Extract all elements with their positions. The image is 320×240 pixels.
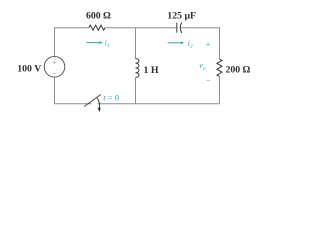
wire: left vertical upper segment (top corner down to source): [54, 28, 56, 57]
wire: middle branch upper segment: [135, 28, 137, 59]
inductor L 1 H (coil): [136, 59, 139, 78]
svg-text:100 V: 100 V: [17, 63, 41, 74]
svg-text:+: +: [206, 39, 211, 49]
resistor R 600 ohm (zigzag on top wire): [89, 25, 105, 30]
wire: right vertical lower segment: [219, 77, 221, 104]
wire: right vertical upper segment: [219, 28, 221, 59]
svg-text:−: −: [206, 76, 211, 86]
switch closing arrow: [97, 98, 99, 108]
wire: middle branch lower segment: [135, 78, 137, 104]
current arrow i2 (cyan): [168, 41, 185, 44]
svg-text:−: −: [53, 69, 57, 77]
capacitor C 125 uF: right curved plate: [180, 22, 182, 33]
svg-text:125 μF: 125 μF: [167, 10, 196, 21]
svg-text:+: +: [53, 58, 57, 66]
svg-text:200 Ω: 200 Ω: [226, 65, 251, 76]
switch blade: [84, 95, 101, 107]
resistor R 200 ohm (vertical zigzag): [217, 59, 222, 76]
wire: left vertical lower segment (source down to bottom corner): [54, 77, 56, 104]
svg-text:i1: i1: [105, 39, 110, 50]
wire: bottom segment left of switch: [55, 103, 92, 105]
wire: top middle segment from R1 to capacitor: [105, 27, 177, 29]
svg-text:600 Ω: 600 Ω: [86, 11, 111, 22]
current arrow i1 (cyan): [87, 41, 103, 44]
capacitor C 125 uF: left flat plate: [176, 23, 178, 33]
svg-text:vo: vo: [199, 61, 206, 72]
wire: top-right segment from capacitor to right corner: [181, 27, 220, 29]
wire: top-left segment from left corner to R1: [55, 27, 90, 29]
svg-text:i2: i2: [188, 39, 193, 50]
voltage source Vs 100 V (circle): [44, 57, 65, 78]
svg-text:1 H: 1 H: [144, 65, 159, 76]
svg-text:t = 0: t = 0: [103, 93, 119, 103]
wire: bottom segment right of switch: [98, 103, 220, 105]
